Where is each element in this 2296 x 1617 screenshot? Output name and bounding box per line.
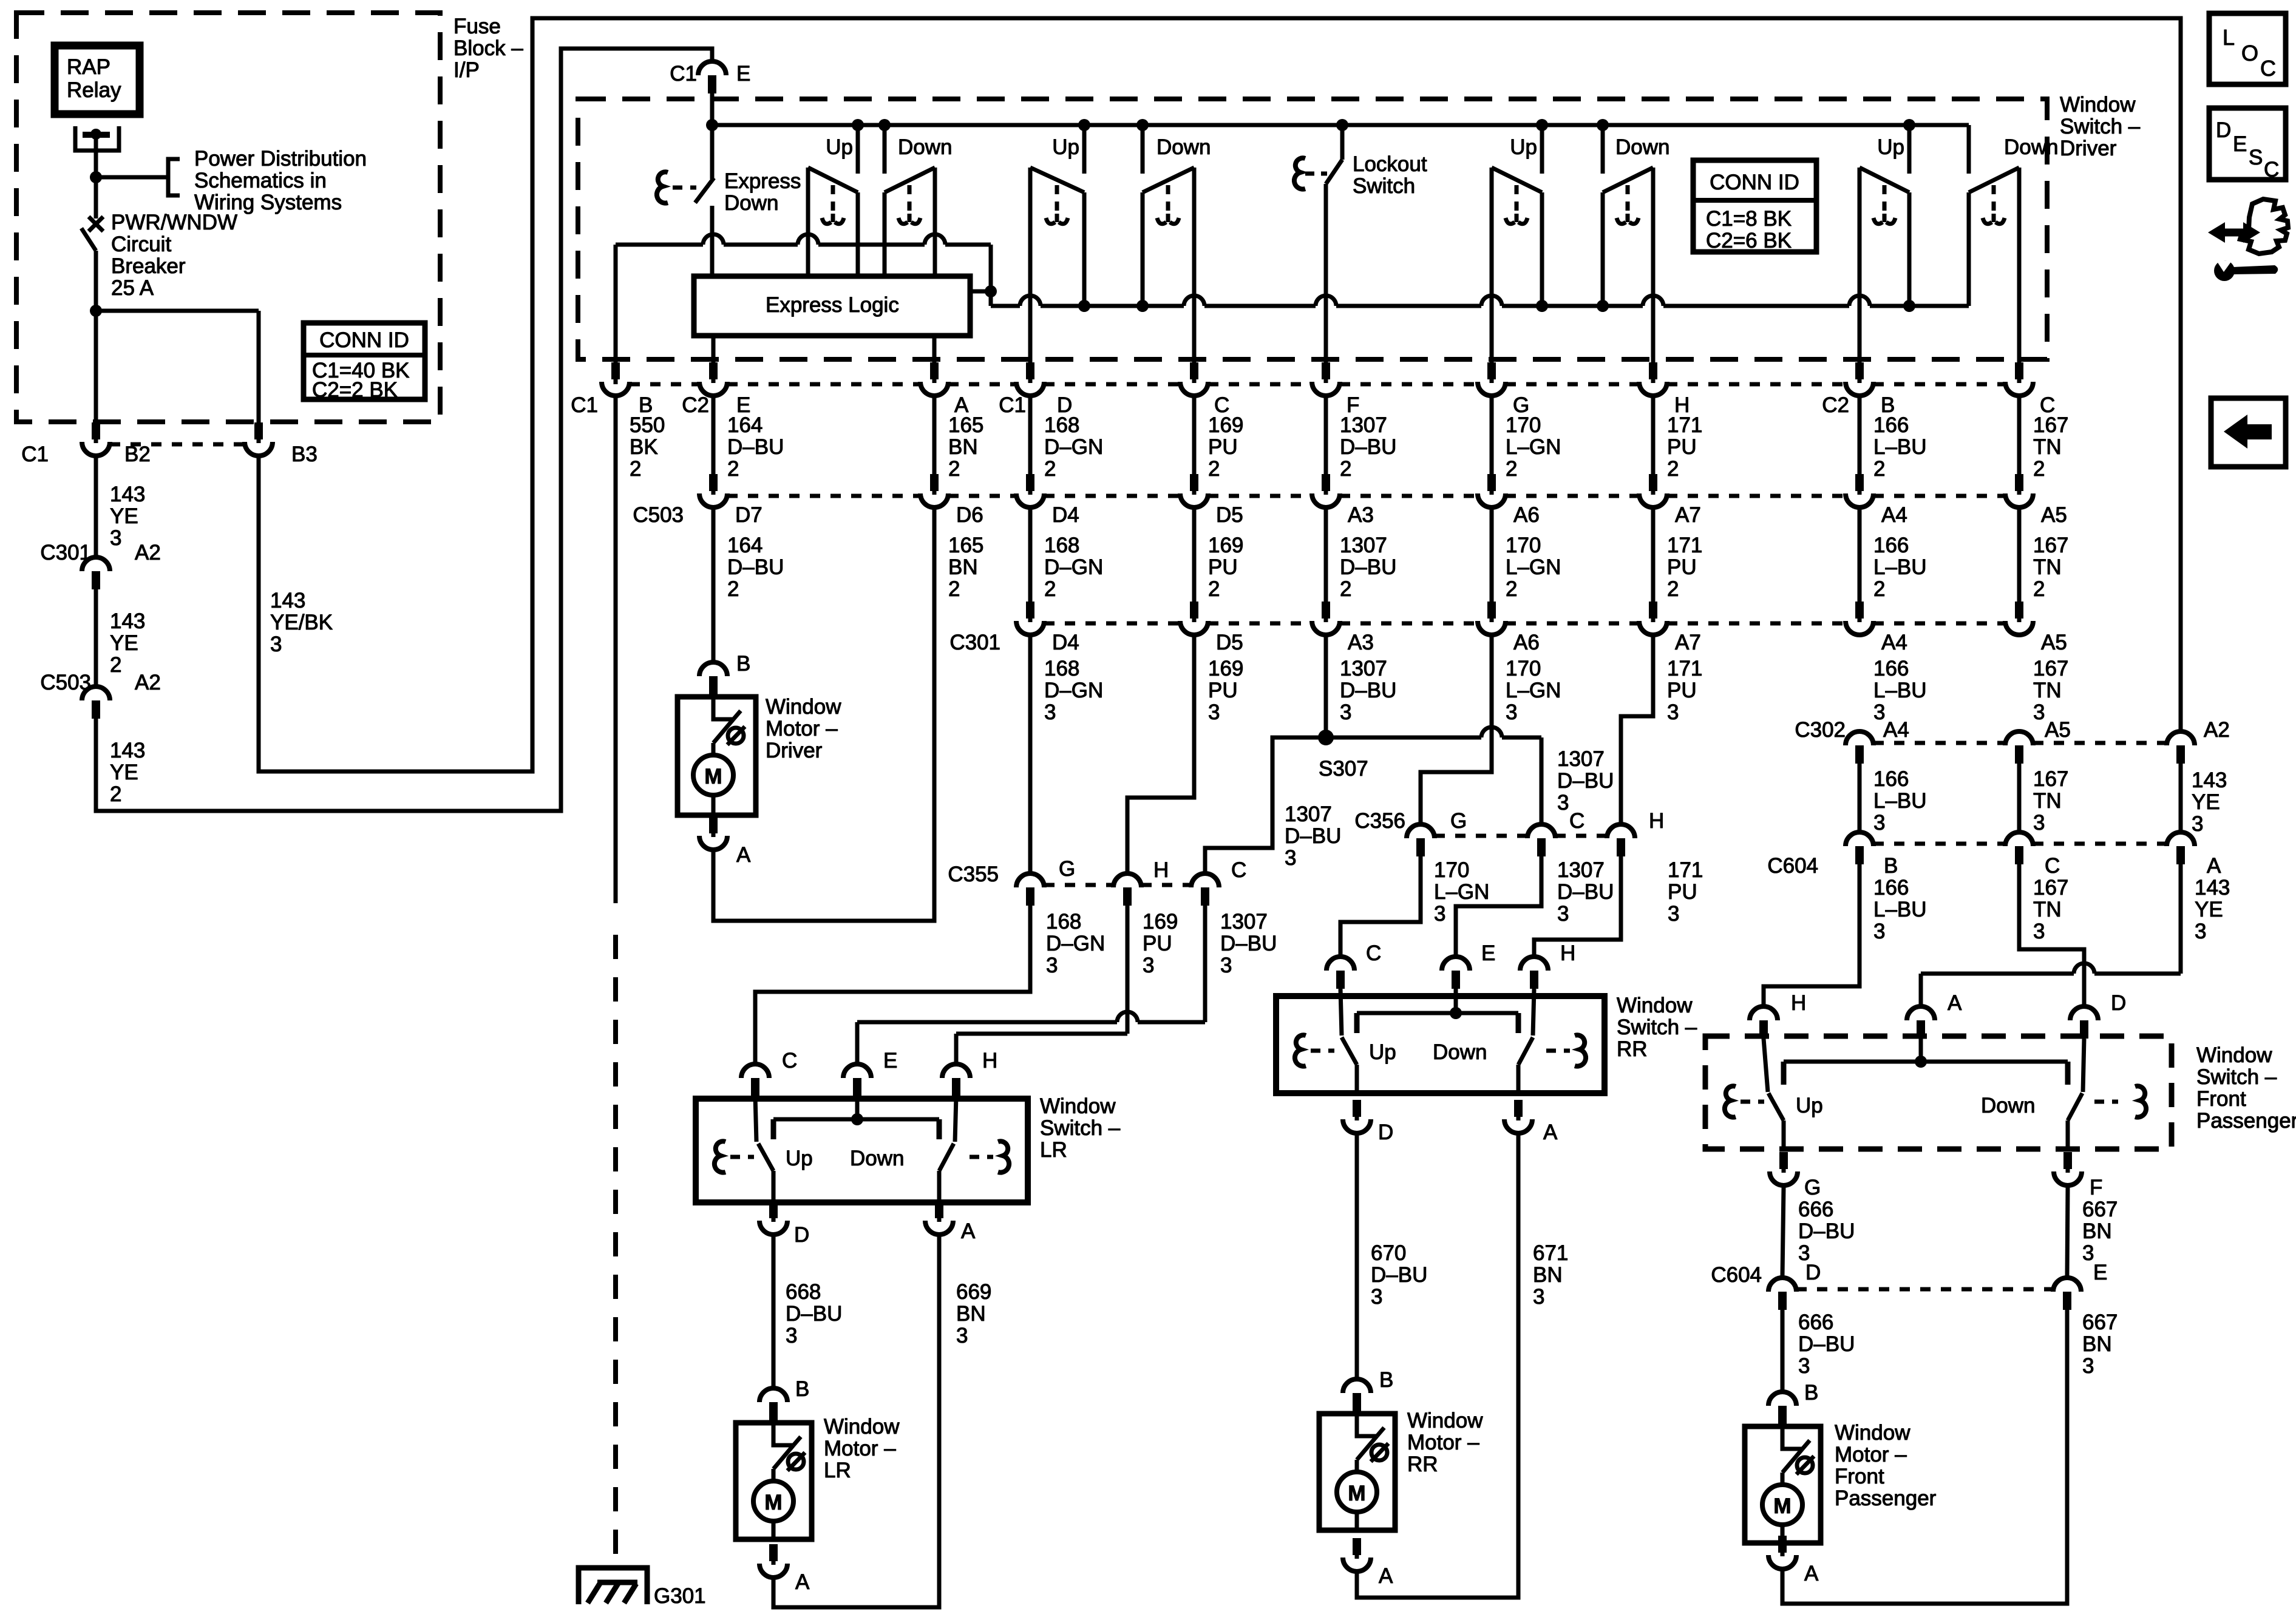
junction dot breaker output (90, 305, 102, 317)
svg-text:Driver: Driver (2060, 137, 2117, 160)
wire (1028, 398, 1033, 476)
LR down switch (937, 1119, 942, 1139)
LR common bar (773, 1117, 939, 1122)
C355 dotted row (1044, 883, 1113, 887)
svg-text:170: 170 (1506, 534, 1541, 557)
svg-text:B2: B2 (124, 442, 151, 466)
svg-text:D–GN: D–GN (1044, 435, 1103, 459)
svg-text:BK: BK (630, 435, 658, 459)
CONN ID box driver switch (1693, 160, 1816, 252)
svg-text:2: 2 (1873, 577, 1885, 601)
svg-text:Motor –: Motor – (824, 1437, 896, 1460)
svg-text:A: A (2207, 854, 2221, 878)
svg-text:YE: YE (2192, 790, 2220, 814)
connector FP G output (1779, 1152, 1788, 1169)
svg-text:PU: PU (1208, 555, 1238, 579)
svg-text:L–BU: L–BU (1873, 555, 1927, 579)
svg-text:Schematics in: Schematics in (194, 169, 327, 192)
connector row C503 dotted line (727, 494, 920, 498)
connector C1-E top (698, 61, 726, 75)
down3 feed (1597, 119, 1609, 131)
svg-text:3: 3 (2082, 1241, 2094, 1265)
window switch front passenger dashed box (1705, 1036, 2172, 1149)
svg-text:666: 666 (1798, 1198, 1833, 1221)
svg-text:A6: A6 (1513, 503, 1540, 527)
svg-text:YE: YE (2195, 898, 2223, 921)
power distribution bracket (168, 159, 180, 195)
connector C302-A4 (1846, 731, 1873, 745)
svg-text:168: 168 (1046, 910, 1081, 934)
svg-text:169: 169 (1208, 657, 1243, 680)
LR H wire to blade tip (955, 1096, 956, 1142)
svg-text:C: C (2045, 854, 2060, 878)
svg-text:D–BU: D–BU (1340, 555, 1396, 579)
connector pin H row1 (1649, 362, 1657, 379)
svg-text:D–GN: D–GN (1044, 555, 1103, 579)
svg-text:167: 167 (2033, 413, 2068, 437)
svg-text:167: 167 (2033, 657, 2068, 680)
svg-text:667: 667 (2082, 1198, 2118, 1221)
svg-text:PU: PU (1667, 679, 1697, 702)
up4 paddle (1858, 168, 1862, 306)
svg-text:Passenger: Passenger (1835, 1486, 1937, 1510)
connector pin A3 C301 (1322, 602, 1330, 619)
svg-text:BN: BN (948, 555, 978, 579)
junction dot bus2 (1078, 300, 1090, 312)
svg-text:PU: PU (1208, 679, 1238, 702)
svg-text:B: B (1884, 854, 1898, 878)
wire (1858, 398, 1862, 476)
svg-text:PU: PU (1668, 880, 1697, 904)
svg-text:H: H (1791, 991, 1806, 1015)
svg-text:M: M (704, 765, 722, 788)
FP H wire to blade tip (1764, 1039, 1768, 1092)
svg-text:C: C (1569, 809, 1584, 833)
svg-text:668: 668 (786, 1280, 821, 1304)
splice S307 (1318, 730, 1334, 745)
circuit breaker X mark (89, 217, 103, 231)
window motor LR box (736, 1423, 812, 1539)
svg-text:3: 3 (1506, 700, 1517, 724)
lockout spring (1294, 158, 1305, 189)
svg-text:3: 3 (1046, 954, 1058, 977)
connector pin A3 C503 (1322, 474, 1330, 491)
svg-text:Window: Window (1407, 1409, 1483, 1432)
connector pin B row1 (1855, 362, 1864, 379)
svg-text:C604: C604 (1767, 854, 1818, 878)
wires C302 to C604 (1858, 764, 1862, 830)
express down mech dashes (673, 186, 696, 190)
connector pin D4 C503 (1026, 474, 1034, 491)
svg-text:YE/BK: YE/BK (270, 611, 333, 634)
window switch LR box (696, 1099, 1028, 1202)
connector pin B row1 (611, 362, 620, 379)
svg-text:A4: A4 (1881, 503, 1907, 527)
wire (1324, 509, 1328, 610)
svg-text:D–BU: D–BU (727, 435, 784, 459)
svg-text:L: L (2223, 25, 2235, 50)
svg-text:Switch: Switch (1353, 174, 1415, 198)
FP springs and links (1725, 1086, 1736, 1117)
down1 paddle switch (933, 168, 937, 276)
wire B2 loop to top (96, 49, 712, 811)
wire logic to C1-A (932, 336, 937, 365)
wire 143 to FP A (hops 167) (2179, 864, 2183, 974)
svg-text:G301: G301 (654, 1584, 706, 1608)
connector RR D output (1353, 1100, 1361, 1117)
svg-text:171: 171 (1668, 858, 1703, 882)
wire (1651, 398, 1656, 476)
svg-text:PU: PU (1667, 435, 1697, 459)
connector C302-A2 (2167, 731, 2195, 745)
wrench icon (2214, 260, 2235, 281)
wire 169 zigzag to C355-H (1127, 637, 1194, 872)
svg-text:E: E (736, 62, 750, 86)
connector B3 (254, 422, 263, 439)
svg-text:C1: C1 (999, 393, 1026, 417)
svg-text:3: 3 (1873, 811, 1885, 835)
svg-text:166: 166 (1873, 534, 1909, 557)
svg-text:3: 3 (1557, 902, 1569, 926)
lead C355-H to LR H (1126, 906, 1130, 1034)
svg-text:F: F (2090, 1176, 2102, 1199)
svg-text:G: G (1059, 857, 1075, 881)
svg-text:Window: Window (2196, 1043, 2272, 1067)
svg-text:3: 3 (1285, 846, 1296, 870)
svg-text:B: B (795, 1377, 809, 1401)
svg-text:RAP: RAP (67, 55, 110, 79)
svg-text:167: 167 (2033, 534, 2068, 557)
svg-text:D–BU: D–BU (727, 555, 784, 579)
up3 paddle (1490, 168, 1494, 306)
svg-text:2: 2 (1667, 457, 1679, 481)
svg-text:1307: 1307 (1340, 413, 1387, 437)
svg-text:Down: Down (1615, 135, 1669, 159)
svg-text:A2: A2 (2204, 718, 2230, 742)
svg-text:Up: Up (1369, 1040, 1396, 1064)
wire 170 to C356-G (1421, 637, 1492, 822)
svg-text:C: C (2264, 158, 2279, 181)
svg-text:A4: A4 (1881, 631, 1907, 654)
svg-text:143: 143 (270, 589, 305, 612)
connector LR A output (935, 1201, 943, 1218)
svg-text:L–BU: L–BU (1873, 679, 1927, 702)
circuit breaker blade (81, 228, 96, 251)
wire (2017, 398, 2022, 476)
svg-text:C604: C604 (1711, 1263, 1762, 1287)
svg-text:1307: 1307 (1285, 802, 1332, 826)
svg-text:L–GN: L–GN (1506, 679, 1561, 702)
svg-text:666: 666 (1798, 1310, 1833, 1334)
connector pin D4 C301 (1026, 602, 1034, 619)
svg-text:Motor –: Motor – (766, 717, 838, 741)
svg-text:L–BU: L–BU (1873, 898, 1927, 921)
down2 paddle (1192, 168, 1197, 306)
svg-text:Circuit: Circuit (111, 232, 171, 256)
svg-text:Switch –: Switch – (2060, 115, 2141, 138)
svg-text:143: 143 (2192, 768, 2227, 792)
connector C503-A2 (82, 686, 110, 700)
svg-text:3: 3 (2033, 700, 2045, 724)
svg-text:170: 170 (1506, 657, 1541, 680)
LR springs and links (715, 1141, 725, 1172)
svg-text:D4: D4 (1052, 631, 1079, 654)
svg-text:A5: A5 (2041, 503, 2067, 527)
up1 paddle switch (806, 168, 810, 276)
wire 167 to FP D (2019, 864, 2084, 1005)
LR E wire into box (855, 1096, 860, 1119)
svg-text:Up: Up (786, 1147, 813, 1170)
svg-text:E: E (2093, 1261, 2107, 1284)
svg-text:2: 2 (2033, 577, 2045, 601)
connector FP motor A (1778, 1536, 1787, 1553)
lead C356-C to RR E (1456, 856, 1541, 955)
svg-text:M: M (1348, 1482, 1365, 1505)
svg-text:Up: Up (1877, 135, 1904, 159)
svg-text:PU: PU (1143, 932, 1172, 955)
connector B window motor driver (699, 662, 727, 676)
svg-text:C301: C301 (40, 541, 91, 564)
svg-text:C503: C503 (40, 671, 91, 694)
svg-text:PU: PU (1667, 555, 1697, 579)
wire B2 down (94, 458, 98, 555)
svg-text:Up: Up (1052, 135, 1079, 159)
motor FP internals (1782, 1426, 1802, 1449)
svg-text:3: 3 (2195, 920, 2206, 943)
connector RR C (1326, 957, 1354, 971)
svg-text:1307: 1307 (1557, 858, 1605, 882)
svg-text:A: A (736, 843, 751, 867)
svg-text:G: G (1804, 1176, 1821, 1199)
svg-text:C355: C355 (948, 863, 999, 886)
svg-text:3: 3 (2033, 811, 2045, 835)
back arrow icon box (2211, 398, 2286, 467)
LR motor return loop (773, 1236, 939, 1607)
svg-text:2: 2 (630, 457, 641, 481)
junction dot bus2 (1597, 300, 1609, 312)
lead C355-G to LR C (755, 906, 1030, 1062)
wire (1490, 398, 1494, 476)
connector FP A (1907, 1006, 1935, 1020)
connector pin A7 C301 (1649, 602, 1657, 619)
motor driver internal switch (713, 697, 733, 719)
wire (1192, 398, 1197, 476)
svg-text:G: G (1450, 809, 1467, 833)
connector pin C row1 (2015, 362, 2023, 379)
wire (1028, 509, 1033, 610)
lockout mech dashes (1305, 172, 1327, 176)
wire (1490, 509, 1494, 610)
svg-text:TN: TN (2033, 435, 2062, 459)
connector pin D6 C503 (930, 474, 939, 491)
svg-text:D–BU: D–BU (1285, 824, 1341, 848)
svg-text:S307: S307 (1319, 757, 1368, 781)
svg-text:Window: Window (1835, 1421, 1911, 1445)
svg-text:3: 3 (1668, 902, 1679, 926)
svg-text:A4: A4 (1883, 718, 1909, 742)
svg-text:A: A (1804, 1562, 1819, 1585)
svg-text:168: 168 (1044, 413, 1079, 437)
wire 166 to FP H (1764, 864, 1860, 1005)
connector C355-H (1113, 873, 1141, 887)
svg-text:Window: Window (1617, 994, 1693, 1017)
svg-text:C2: C2 (682, 393, 709, 417)
FP down switch (2065, 1062, 2071, 1085)
svg-text:D–BU: D–BU (1557, 880, 1614, 904)
lead C356-G to RR C (1340, 856, 1421, 955)
connector LR C (741, 1064, 769, 1078)
lockout feed (1336, 119, 1348, 131)
junction dot bus2 (1536, 300, 1548, 312)
RR up switch (1354, 1013, 1360, 1033)
bus2 switch common line (991, 304, 1020, 308)
svg-text:3: 3 (1667, 700, 1679, 724)
express logic output tap (970, 290, 991, 294)
RR common bar (1357, 1011, 1518, 1015)
svg-text:1307: 1307 (1340, 534, 1387, 557)
CONN ID box fuse block (304, 323, 425, 399)
express down output (710, 206, 715, 276)
svg-text:TN: TN (2033, 898, 2062, 921)
svg-text:PWR/WNDW: PWR/WNDW (111, 211, 237, 234)
svg-text:CONN ID: CONN ID (319, 328, 409, 352)
FP A wire into box (1919, 1039, 1923, 1062)
RR H wire to blade tip (1533, 989, 1534, 1036)
connector pin A7 C503 (1649, 474, 1657, 491)
svg-text:167: 167 (2033, 876, 2068, 900)
svg-text:L–GN: L–GN (1506, 435, 1561, 459)
wire (1192, 509, 1197, 610)
svg-text:2: 2 (110, 782, 121, 806)
svg-text:D–BU: D–BU (1340, 435, 1396, 459)
svg-text:3: 3 (2082, 1354, 2094, 1378)
svg-text:2: 2 (1340, 577, 1351, 601)
DESC icon box (2209, 108, 2286, 180)
svg-text:670: 670 (1371, 1241, 1406, 1265)
svg-text:TN: TN (2033, 789, 2062, 813)
svg-text:169: 169 (1143, 910, 1178, 934)
connector pin E row1 (709, 362, 718, 379)
svg-text:164: 164 (727, 534, 763, 557)
svg-text:Motor –: Motor – (1835, 1443, 1907, 1466)
svg-text:143: 143 (110, 609, 145, 633)
svg-text:BN: BN (2082, 1219, 2112, 1243)
550 BK dashed continuation to ground (613, 935, 618, 1568)
svg-text:C503: C503 (633, 503, 684, 527)
svg-text:M: M (764, 1491, 782, 1514)
svg-text:143: 143 (110, 739, 145, 762)
svg-text:C: C (782, 1049, 797, 1073)
svg-text:2: 2 (1044, 457, 1056, 481)
svg-text:Express Logic: Express Logic (766, 293, 899, 317)
svg-text:3: 3 (1143, 954, 1154, 977)
svg-text:RR: RR (1617, 1037, 1648, 1061)
svg-text:CONN ID: CONN ID (1710, 171, 1799, 194)
svg-text:D5: D5 (1216, 503, 1243, 527)
window motor front passenger box (1745, 1426, 1821, 1543)
svg-text:168: 168 (1044, 534, 1079, 557)
RR down switch (1516, 1013, 1521, 1033)
S307 branch left to C355-C (1205, 737, 1326, 872)
express down switch feed (710, 125, 715, 179)
svg-text:3: 3 (1798, 1354, 1810, 1378)
connector pin A5 C301 (2015, 602, 2023, 619)
svg-text:Fuse: Fuse (453, 15, 501, 38)
connector C301-A2 (82, 557, 110, 571)
wire 1307 to S307 (1324, 637, 1328, 737)
svg-text:C: C (2260, 56, 2276, 81)
svg-text:1307: 1307 (1340, 657, 1387, 680)
svg-text:166: 166 (1873, 657, 1909, 680)
svg-text:Switch –: Switch – (1617, 1015, 1697, 1039)
svg-text:D–BU: D–BU (1798, 1219, 1855, 1243)
svg-text:L–GN: L–GN (1506, 555, 1561, 579)
svg-text:H: H (1649, 809, 1664, 833)
svg-text:2: 2 (1208, 577, 1220, 601)
wire (2017, 509, 2022, 610)
svg-text:C1: C1 (21, 442, 49, 466)
up2 feed (1078, 119, 1090, 131)
svg-text:Down: Down (724, 191, 778, 215)
connector row C301 dotted line (1044, 622, 1180, 626)
svg-text:C302: C302 (1795, 718, 1846, 742)
relay contact symbol (75, 126, 119, 151)
connector A window motor driver (709, 816, 718, 833)
down2 feed (1136, 119, 1149, 131)
wire (1324, 398, 1328, 476)
svg-text:B3: B3 (291, 442, 318, 466)
svg-text:25 A: 25 A (111, 276, 154, 300)
svg-text:C2=2 BK: C2=2 BK (312, 378, 398, 402)
svg-text:I/P: I/P (453, 58, 480, 82)
svg-text:3: 3 (1044, 700, 1056, 724)
svg-text:E: E (883, 1049, 897, 1073)
motor LR internals (773, 1423, 793, 1445)
RR motor return loop (1357, 1135, 1518, 1598)
wire logic to C2-E (712, 336, 716, 365)
svg-text:LR: LR (1040, 1138, 1067, 1162)
svg-text:C: C (1366, 941, 1381, 965)
connector pin A row1 (930, 362, 939, 379)
connector pin A4 C301 (1855, 602, 1864, 619)
wire junction to B3 (96, 309, 259, 313)
FP D wire to blade tip (2083, 1039, 2084, 1092)
550 BK wire down (614, 398, 618, 903)
svg-text:3: 3 (1434, 902, 1445, 926)
svg-text:170: 170 (1506, 413, 1541, 437)
svg-text:2: 2 (1506, 577, 1517, 601)
svg-text:171: 171 (1667, 534, 1702, 557)
dotted row B2-B3 (110, 442, 245, 447)
motor RR internals (1357, 1414, 1377, 1436)
wire (712, 398, 716, 476)
connector C302-A5 (2005, 731, 2033, 745)
svg-text:D7: D7 (735, 503, 763, 527)
wire RR D to motor (1355, 1135, 1359, 1377)
connector C604-C (2005, 832, 2033, 846)
svg-text:H: H (1560, 941, 1575, 965)
connector LR H (942, 1064, 970, 1078)
connector pin G row1 (1487, 362, 1496, 379)
connector C604-B (1846, 832, 1873, 846)
connector pin D5 C301 (1190, 602, 1198, 619)
svg-text:2: 2 (1044, 577, 1056, 601)
junction dot express (706, 119, 718, 131)
svg-text:2: 2 (1873, 457, 1885, 481)
connector pin C row1 (1190, 362, 1198, 379)
svg-text:O: O (2241, 41, 2258, 66)
S307 branch right to C356-C (1326, 736, 1481, 740)
